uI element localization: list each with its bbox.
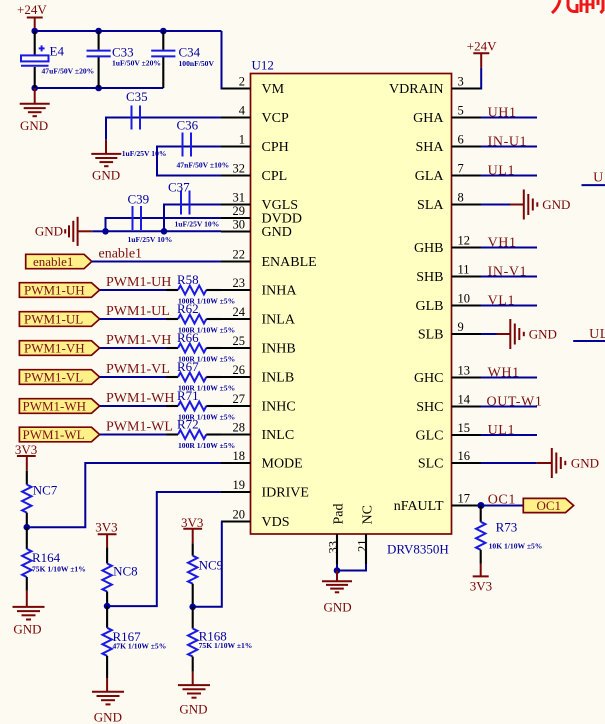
resistor R164 [22, 527, 86, 590]
svg-text:VM: VM [262, 82, 285, 97]
pin 12 GHB [414, 234, 481, 257]
svg-text:OC1: OC1 [537, 498, 562, 513]
pin 13 GHC [414, 364, 481, 387]
wire partial net UL right edge [573, 340, 605, 342]
svg-text:Pad: Pad [332, 504, 347, 525]
svg-text:30: 30 [233, 218, 246, 232]
ground GND left sideways [35, 217, 92, 246]
ground GND below Pad [322, 571, 352, 615]
svg-text:GHB: GHB [414, 241, 444, 256]
svg-text:1uF/25V 10%: 1uF/25V 10% [122, 149, 167, 158]
svg-text:3V3: 3V3 [95, 520, 117, 535]
svg-text:12: 12 [458, 234, 471, 248]
wire PWM1-VH [100, 347, 166, 349]
svg-text:+24V: +24V [467, 39, 497, 54]
svg-text:R164: R164 [32, 550, 61, 565]
pin 20 VDS [221, 508, 290, 531]
svg-text:R72: R72 [177, 417, 199, 432]
svg-text:8: 8 [458, 191, 464, 205]
svg-text:1: 1 [239, 133, 245, 147]
svg-text:16: 16 [458, 449, 471, 463]
pin 6 SHA [415, 133, 481, 156]
pin 27 INHC [221, 392, 296, 415]
svg-text:75K 1/10W ±1%: 75K 1/10W ±1% [32, 564, 86, 573]
svg-text:28: 28 [233, 421, 246, 435]
svg-text:SHA: SHA [415, 140, 444, 155]
svg-text:INLC: INLC [262, 428, 295, 443]
svg-text:nFAULT: nFAULT [394, 499, 444, 514]
pin 15 GLC [416, 421, 482, 444]
wire UL1 [481, 175, 537, 177]
capacitor C39 [128, 192, 173, 245]
svg-text:25: 25 [233, 334, 246, 348]
svg-text:24: 24 [233, 305, 246, 319]
svg-text:3V3: 3V3 [470, 579, 492, 594]
svg-text:SLB: SLB [418, 328, 444, 343]
svg-text:U12: U12 [252, 58, 274, 73]
capacitor C33 [87, 31, 161, 88]
pin 8 SLA [417, 191, 481, 214]
wire IN-V1 [481, 276, 537, 278]
pin 14 SHC [416, 393, 481, 416]
svg-text:IDRIVE: IDRIVE [262, 486, 309, 501]
wire WH1 [481, 377, 537, 379]
wire IN-U1 [481, 146, 537, 148]
junction top rail C33 [95, 28, 102, 35]
svg-text:22: 22 [233, 248, 246, 262]
pin 1 CPH [221, 133, 289, 156]
svg-text:VCP: VCP [262, 111, 289, 126]
svg-text:100R 1/10W ±5%: 100R 1/10W ±5% [178, 441, 235, 450]
svg-text:47K 1/10W ±5%: 47K 1/10W ±5% [113, 642, 167, 651]
svg-text:47uF/50V ±20%: 47uF/50V ±20% [42, 67, 95, 76]
power 3V3 for NC8 [95, 520, 117, 548]
pin 30 GND [221, 218, 292, 241]
svg-text:VL1: VL1 [488, 293, 515, 308]
Chinese title text strokes (cropped) [552, 0, 603, 13]
ground GND below C35 [91, 140, 121, 183]
svg-text:GLA: GLA [415, 169, 445, 184]
svg-text:C34: C34 [179, 45, 201, 60]
svg-text:enable1: enable1 [33, 254, 73, 269]
svg-text:3: 3 [458, 75, 464, 89]
pin 11 SHB [416, 263, 481, 286]
wire top rail [35, 30, 222, 32]
svg-text:U: U [593, 171, 604, 186]
svg-text:PWM1-WH: PWM1-WH [106, 391, 174, 406]
svg-text:GND: GND [179, 702, 207, 717]
svg-text:GND: GND [94, 710, 122, 724]
wire VGLS net [164, 205, 221, 232]
svg-text:1uF/25V 10%: 1uF/25V 10% [175, 220, 220, 229]
pin 10 GLB [416, 292, 482, 315]
port enable1 [26, 254, 92, 269]
svg-text:E4: E4 [50, 44, 65, 59]
ground GND at SLC [537, 448, 599, 478]
svg-text:PWM1-WL: PWM1-WL [106, 420, 173, 435]
ground GND below R167 [92, 678, 124, 724]
svg-text:C37: C37 [168, 180, 190, 195]
junction NC8-R167 [104, 603, 111, 610]
svg-text:3V3: 3V3 [181, 515, 203, 530]
svg-text:47nF/50V ±10%: 47nF/50V ±10% [177, 161, 230, 170]
capacitor C35 [122, 89, 167, 158]
resistor NC7 [22, 471, 58, 528]
ground GND below R164 [13, 591, 45, 637]
port PWM1-UL [19, 312, 99, 327]
svg-text:SHB: SHB [416, 270, 443, 285]
junction bottom rail E4 [31, 85, 38, 92]
junction NC7-R164 [24, 524, 31, 531]
pin 22 ENABLE [221, 248, 317, 271]
ground GND at SLB [497, 319, 557, 349]
svg-text:23: 23 [233, 276, 246, 290]
svg-text:IN-U1: IN-U1 [488, 134, 528, 149]
pin 9 SLB [418, 320, 481, 343]
pin 23 INHA [221, 276, 297, 299]
svg-text:GND: GND [13, 622, 41, 637]
power 3V3 for NC7 [15, 442, 37, 471]
pin 16 SLC [418, 449, 481, 472]
port PWM1-WH [19, 399, 99, 414]
junction bottom rail C33 [95, 85, 102, 92]
svg-text:R66: R66 [177, 330, 199, 345]
svg-text:MODE: MODE [262, 457, 303, 472]
wire SLB to ground [481, 333, 497, 335]
pin 24 INLA [221, 305, 296, 328]
wire PWM1-UL [100, 318, 166, 320]
wire VCP net [106, 118, 221, 140]
resistor R168 [188, 607, 252, 672]
svg-text:C39: C39 [128, 192, 150, 207]
svg-text:GND: GND [35, 224, 63, 239]
wire IDRIVE net [107, 492, 221, 606]
svg-text:INHC: INHC [262, 400, 296, 415]
pin 18 MODE [221, 449, 303, 472]
svg-text:PWM1-VL: PWM1-VL [24, 370, 83, 385]
svg-text:UL: UL [589, 327, 605, 342]
svg-text:3V3: 3V3 [15, 442, 37, 457]
svg-text:INLB: INLB [262, 371, 295, 386]
svg-text:33: 33 [327, 541, 341, 554]
junction top rail E4 [31, 28, 38, 35]
port OC1 [523, 498, 573, 513]
svg-text:GLB: GLB [416, 299, 444, 314]
svg-text:GLC: GLC [416, 429, 444, 444]
ground GND at SLA [510, 190, 570, 220]
svg-text:GND: GND [262, 225, 292, 240]
pin 25 INHB [221, 334, 296, 357]
pin 31 VGLS [221, 191, 298, 214]
svg-text:75K 1/10W ±1%: 75K 1/10W ±1% [199, 641, 253, 650]
resistor R167 [102, 606, 166, 678]
wire PWM1-WH [100, 405, 166, 407]
junction Pad-NC [334, 567, 341, 574]
svg-text:UL1: UL1 [488, 163, 515, 178]
svg-text:GHC: GHC [414, 371, 444, 386]
svg-text:OUT-W1: OUT-W1 [487, 394, 543, 409]
svg-text:VDRAIN: VDRAIN [389, 82, 443, 97]
svg-text:C35: C35 [126, 89, 148, 104]
wire SLC to ground [481, 462, 537, 464]
svg-text:R67: R67 [177, 359, 199, 374]
port PWM1-UH [19, 283, 99, 298]
svg-text:1uF/25V 10%: 1uF/25V 10% [128, 235, 173, 244]
svg-text:GND: GND [92, 168, 120, 183]
svg-text:31: 31 [233, 191, 246, 205]
svg-text:32: 32 [233, 162, 246, 176]
pin 3 VDRAIN [389, 75, 481, 98]
junction GND row left [102, 228, 109, 235]
svg-text:OC1: OC1 [488, 492, 516, 507]
svg-text:18: 18 [233, 449, 246, 463]
resistor R71 [166, 388, 235, 422]
svg-text:INHB: INHB [262, 342, 296, 357]
svg-text:21: 21 [356, 540, 370, 553]
pin 5 GHA [413, 104, 481, 127]
wire nFAULT to port [481, 505, 523, 507]
wire VL1 [481, 305, 537, 307]
wire OUT-W1 [481, 406, 537, 408]
wire VDS net [193, 522, 222, 607]
pin 29 DVDD [221, 204, 302, 227]
svg-text:1uF/50V ±20%: 1uF/50V ±20% [112, 59, 161, 68]
svg-text:PWM1-UH: PWM1-UH [24, 283, 85, 298]
IC U12 body [251, 58, 452, 557]
pin 26 INLB [221, 363, 294, 386]
svg-text:R73: R73 [496, 520, 518, 535]
junction top rail C34 [160, 28, 167, 35]
svg-text:C36: C36 [177, 118, 199, 133]
svg-text:DRV8350H: DRV8350H [387, 542, 449, 557]
wire bottom rail [35, 87, 164, 89]
svg-text:PWM1-VL: PWM1-VL [106, 362, 170, 377]
svg-text:10K 1/10W ±5%: 10K 1/10W ±5% [489, 542, 543, 551]
svg-text:27: 27 [233, 392, 246, 406]
svg-text:5: 5 [458, 104, 464, 118]
svg-text:VH1: VH1 [488, 235, 517, 250]
svg-text:UL1: UL1 [488, 423, 515, 438]
junction GND row right [161, 228, 168, 235]
power +24V top-left [17, 2, 47, 31]
svg-text:14: 14 [458, 393, 471, 407]
svg-text:7: 7 [458, 162, 464, 176]
junction NC9-R168 [189, 604, 196, 611]
svg-text:IN-V1: IN-V1 [488, 264, 528, 279]
port PWM1-WL [19, 427, 99, 442]
svg-text:GHA: GHA [413, 111, 444, 126]
svg-text:GND: GND [542, 197, 570, 212]
svg-text:CPH: CPH [262, 140, 289, 155]
svg-text:CPL: CPL [262, 169, 288, 184]
svg-text:R58: R58 [177, 272, 199, 287]
svg-text:GND: GND [571, 456, 599, 471]
svg-text:100nF/50V: 100nF/50V [179, 59, 215, 68]
svg-text:NC8: NC8 [113, 564, 138, 579]
wire VH1 [481, 247, 537, 249]
capacitor C37 [168, 180, 219, 229]
svg-text:GND: GND [324, 600, 352, 615]
svg-text:10: 10 [458, 292, 471, 306]
svg-text:4: 4 [239, 104, 246, 118]
svg-text:C33: C33 [112, 45, 134, 60]
junction nFAULT [477, 502, 484, 509]
svg-text:INLA: INLA [262, 313, 296, 328]
svg-text:19: 19 [233, 478, 246, 492]
power 3V3 for NC9 [181, 515, 203, 543]
resistor NC8 [102, 547, 137, 606]
wire PWM1-VL [100, 376, 166, 378]
resistor R72 [166, 417, 235, 451]
resistor R58 [166, 272, 235, 306]
svg-text:2: 2 [239, 75, 245, 89]
svg-text:GND: GND [529, 327, 557, 342]
svg-text:NC7: NC7 [33, 483, 58, 498]
wire PWM1-UH [100, 289, 166, 291]
wire PWM1-WL [100, 434, 166, 436]
wire UH1 [481, 117, 537, 119]
svg-text:SLC: SLC [418, 457, 444, 472]
power 3V3 below R73 [470, 564, 492, 594]
svg-text:NC9: NC9 [199, 558, 224, 573]
wire NC pin21 to junction [337, 564, 366, 571]
svg-text:WH1: WH1 [488, 365, 520, 380]
svg-text:15: 15 [458, 421, 471, 435]
pin 21 NC [356, 505, 376, 564]
svg-text:R62: R62 [177, 301, 199, 316]
pin 19 IDRIVE [221, 478, 309, 501]
svg-text:PWM1-VH: PWM1-VH [24, 341, 85, 356]
capacitor E4 [21, 31, 94, 88]
ground GND below E4 [20, 88, 50, 133]
wire UL1 GLC [481, 434, 537, 436]
wire VDRAIN to +24V [480, 68, 482, 89]
wire CPH-C36 net [157, 147, 221, 176]
resistor R67 [166, 359, 235, 393]
svg-text:ENABLE: ENABLE [262, 255, 317, 270]
capacitor C36 [177, 118, 230, 170]
svg-text:PWM1-VH: PWM1-VH [106, 333, 171, 348]
svg-text:PWM1-WL: PWM1-WL [23, 427, 85, 442]
svg-text:SLA: SLA [417, 198, 444, 213]
wire MODE net [27, 463, 221, 527]
power +24V at VDRAIN [467, 39, 497, 68]
svg-text:PWM1-UL: PWM1-UL [106, 304, 170, 319]
svg-text:PWM1-UL: PWM1-UL [24, 312, 83, 327]
svg-text:20: 20 [233, 508, 246, 522]
wire DVDD net [106, 218, 222, 231]
wire SLA to ground [481, 204, 510, 206]
resistor R73 [476, 506, 542, 564]
pin 33 Pad [327, 504, 347, 565]
svg-text:17: 17 [458, 492, 471, 506]
ground GND below R168 [178, 672, 210, 717]
pin 28 INLC [221, 421, 294, 444]
port PWM1-VH [19, 341, 99, 356]
capacitor C34 [151, 31, 214, 88]
wire GND row [106, 230, 222, 232]
svg-text:26: 26 [233, 363, 246, 377]
wire enable1 [92, 261, 221, 263]
svg-text:29: 29 [233, 204, 246, 218]
pin 32 CPL [221, 162, 287, 185]
svg-text:UH1: UH1 [488, 105, 517, 120]
resistor R62 [166, 301, 235, 335]
pin 4 VCP [221, 104, 289, 127]
wire partial net U right edge [582, 184, 605, 186]
svg-text:R71: R71 [177, 388, 199, 403]
svg-text:13: 13 [458, 364, 471, 378]
wire Pad pin33 to junction [336, 564, 338, 571]
svg-text:11: 11 [458, 263, 470, 277]
resistor R66 [166, 330, 235, 364]
svg-text:+24V: +24V [17, 2, 47, 17]
wire rail to VM pin [221, 31, 224, 89]
pin 2 VM [221, 75, 285, 98]
svg-text:9: 9 [458, 320, 464, 334]
svg-text:SHC: SHC [416, 400, 443, 415]
port PWM1-VL [19, 370, 99, 385]
svg-text:INHA: INHA [262, 284, 298, 299]
svg-text:6: 6 [458, 133, 464, 147]
svg-text:VDS: VDS [262, 515, 290, 530]
svg-text:enable1: enable1 [99, 247, 143, 262]
svg-text:PWM1-WH: PWM1-WH [23, 399, 87, 414]
pin 17 nFAULT [394, 492, 481, 515]
pin 7 GLA [415, 162, 481, 185]
svg-text:PWM1-UH: PWM1-UH [106, 275, 171, 290]
svg-text:NC: NC [361, 505, 376, 524]
resistor NC9 [188, 543, 223, 607]
svg-text:GND: GND [20, 118, 48, 133]
